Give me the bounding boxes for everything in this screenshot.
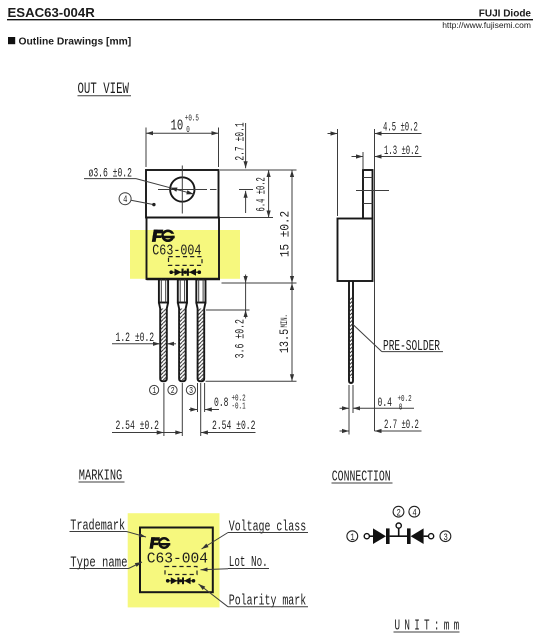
svg-text:OUT VIEW: OUT VIEW xyxy=(78,81,130,99)
dim 1.2 +-0.2 (lead width) xyxy=(112,331,176,345)
front body outline xyxy=(147,218,220,280)
front tab outline xyxy=(146,170,219,218)
section title: outline drawings xyxy=(8,36,131,47)
marking lot no dashed box xyxy=(165,567,197,575)
dim 2.7 +-0.1 (top to hole center) xyxy=(220,122,253,213)
mounting hole xyxy=(170,177,194,201)
svg-text:4: 4 xyxy=(123,194,127,205)
svg-text:2: 2 xyxy=(171,386,175,396)
marking box outline xyxy=(140,528,213,593)
label lot no xyxy=(201,554,270,571)
svg-text:0: 0 xyxy=(399,402,403,413)
dim 10 +0.5/0 (tab width) xyxy=(146,113,219,167)
front marking: polarity mark xyxy=(169,269,201,276)
svg-text:0.4: 0.4 xyxy=(378,396,392,410)
svg-text:+0.5: +0.5 xyxy=(185,113,199,124)
svg-text:1: 1 xyxy=(350,532,354,543)
label ø3.6 xyxy=(84,167,136,181)
svg-text:10: 10 xyxy=(171,117,184,134)
svg-text:1.3 ±0.2: 1.3 ±0.2 xyxy=(384,144,419,159)
node terminal left xyxy=(364,534,369,539)
terminal balloon 4 xyxy=(409,506,420,518)
lead 3 xyxy=(196,280,205,382)
wire tap xyxy=(398,528,400,536)
side tab outline xyxy=(363,170,373,219)
front body bottom thick edge xyxy=(147,278,221,281)
front marking: lot number dashed box xyxy=(169,257,203,266)
dim 0.4 +0.2/0 (lead thickness side) xyxy=(340,385,415,435)
unit note xyxy=(394,618,464,635)
dim 2.54 left xyxy=(112,419,182,433)
yellow highlight on front-view marking xyxy=(130,230,240,279)
label trademark xyxy=(70,518,147,537)
header rule xyxy=(7,19,533,21)
lead3 edge extension lines xyxy=(198,383,205,412)
svg-text:0: 0 xyxy=(186,125,190,136)
title CONNECTION xyxy=(332,467,393,485)
wire left xyxy=(369,535,373,537)
svg-text:3: 3 xyxy=(189,386,193,396)
dim 15 +-0.2 (package height) xyxy=(222,170,297,283)
title OUT VIEW xyxy=(78,81,132,99)
node terminal center tap xyxy=(396,523,401,528)
lead 1 xyxy=(159,280,168,382)
svg-text:ESAC63-004R: ESAC63-004R xyxy=(8,5,96,20)
label voltage class xyxy=(202,519,309,549)
svg-text:2.7 ±0.1: 2.7 ±0.1 xyxy=(234,122,248,160)
terminal balloon 2 xyxy=(393,506,404,518)
front marking: fuji logo xyxy=(152,230,176,242)
side lead pre-solder hatch xyxy=(349,298,353,379)
hole vertical center line xyxy=(181,166,183,214)
lead center extension lines xyxy=(164,383,201,436)
wire center xyxy=(390,535,407,537)
dim 2.7 +-0.2 (lead to back face) xyxy=(340,418,422,433)
dim 13.5 MIN (lead length) xyxy=(206,283,297,381)
dim 1.3 +-0.2 (tab thickness) xyxy=(352,144,422,170)
balloon 4 xyxy=(119,193,155,207)
svg-text:3: 3 xyxy=(443,532,447,543)
svg-text:2.54 ±0.2: 2.54 ±0.2 xyxy=(212,419,255,433)
svg-text:CONNECTION: CONNECTION xyxy=(332,467,391,485)
svg-text:4.5 ±0.2: 4.5 ±0.2 xyxy=(383,121,418,136)
label type name xyxy=(70,554,143,571)
svg-text:MIN.: MIN. xyxy=(278,314,290,327)
svg-text:FUJI Diode: FUJI Diode xyxy=(479,9,532,20)
label polarity mark xyxy=(199,584,309,609)
header: part number xyxy=(8,5,96,20)
marking fuji logo xyxy=(149,537,171,549)
terminal balloon 3 xyxy=(440,531,451,543)
svg-text:2.54 ±0.2: 2.54 ±0.2 xyxy=(116,419,159,433)
svg-text:MARKING: MARKING xyxy=(79,467,122,484)
svg-text:1: 1 xyxy=(152,386,156,396)
node terminal right xyxy=(429,534,434,539)
svg-text:0.8: 0.8 xyxy=(214,397,228,411)
svg-text:ø3.6 ±0.2: ø3.6 ±0.2 xyxy=(89,167,132,181)
hole diameter leader diagonal xyxy=(136,179,194,195)
pin number balloons 1 2 3 xyxy=(150,385,196,396)
hole horizontal center line xyxy=(158,189,253,191)
diode D2 xyxy=(407,528,424,544)
diode D1 xyxy=(373,528,390,544)
lead 2 xyxy=(178,280,187,382)
pre-solder label xyxy=(353,325,443,355)
side body outline xyxy=(338,219,373,282)
svg-text:2: 2 xyxy=(397,507,401,518)
marking polarity mark xyxy=(166,577,195,584)
svg-text:http://www.fujisemi.com: http://www.fujisemi.com xyxy=(442,20,531,30)
side hole hidden lines xyxy=(363,178,373,204)
wire right xyxy=(424,535,429,537)
svg-text:4: 4 xyxy=(412,507,416,518)
svg-text:6.4 ±0.2: 6.4 ±0.2 xyxy=(255,177,270,211)
svg-text:2.7 ±0.2: 2.7 ±0.2 xyxy=(384,418,419,433)
terminal balloon 1 xyxy=(347,531,358,543)
side hole center line xyxy=(356,190,389,192)
dim 2.54 right xyxy=(201,419,256,433)
side lead xyxy=(349,281,353,383)
svg-text:Outline Drawings [mm]: Outline Drawings [mm] xyxy=(19,36,132,47)
svg-text:C63-004: C63-004 xyxy=(147,551,208,567)
svg-text:-0.1: -0.1 xyxy=(232,401,246,412)
title MARKING xyxy=(79,467,125,484)
dim 6.4 +-0.2 (tab height) xyxy=(220,170,273,218)
dim 0.8 +0.2/-0.1 (lead thickness) xyxy=(189,393,246,412)
svg-text:PRE-SOLDER: PRE-SOLDER xyxy=(383,338,440,355)
yellow highlight on marking box xyxy=(128,513,220,607)
svg-text:3.6 ±0.2: 3.6 ±0.2 xyxy=(234,319,248,358)
dim 3.6 +-0.2 (unplated lead) xyxy=(206,275,250,359)
svg-text:15 ±0.2: 15 ±0.2 xyxy=(278,211,293,257)
dim 4.5 +-0.2 (body thickness) xyxy=(328,121,422,431)
svg-text:13.5: 13.5 xyxy=(278,329,292,353)
